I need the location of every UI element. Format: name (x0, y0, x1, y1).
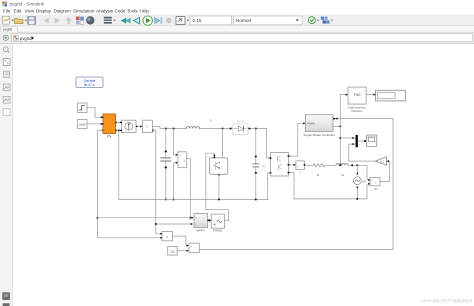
address input (12, 34, 473, 42)
arrow into PWM1 (209, 219, 211, 221)
capacitor C branch (253, 129, 259, 200)
wire V-measure minus down to rail (174, 163, 177, 200)
toolbar: model settings stack (104, 17, 116, 24)
svg-text:pvgrid - Simulink: pvgrid - Simulink (10, 2, 45, 7)
svg-text:pvgrid: pvgrid (20, 36, 32, 41)
svg-text:+: + (146, 125, 148, 129)
svg-text:V: V (195, 216, 197, 220)
wire bridge out to current measurement 2 (290, 164, 295, 166)
product block (162, 232, 173, 241)
svg-text:-: - (191, 249, 192, 253)
wire R to L1 (326, 164, 336, 166)
junction PV- down (118, 129, 120, 131)
PWM1 block (211, 214, 224, 228)
svg-text:pvgrid: pvgrid (3, 28, 12, 32)
current measurement block 2 (296, 161, 306, 170)
svg-text:PWM: PWM (307, 122, 315, 126)
svg-text:Single Phase Controller: Single Phase Controller (303, 133, 335, 137)
MPPT block (194, 214, 209, 228)
toolbar: stop (disabled) (166, 18, 172, 24)
current measurement block (142, 120, 154, 132)
junction load line (351, 164, 353, 166)
return wire bottom right (294, 185, 369, 199)
arrows into product (160, 233, 162, 235)
toolbar: step back (134, 17, 140, 24)
junction mux in1 (339, 137, 341, 139)
wire IGBT emitter to rail (218, 174, 220, 199)
wire gain out to mux in2 (349, 144, 376, 161)
svg-text:File: File (3, 8, 11, 13)
wire mux to scope (358, 140, 364, 142)
svg-text:Pv: Pv (107, 134, 111, 138)
junction bus / V-measure (173, 128, 175, 130)
wire PWM1 out gate loop to IGBT (206, 153, 229, 221)
toolbar: up arrow (disabled) (66, 17, 72, 24)
svg-text:110: 110 (170, 249, 175, 253)
svg-text:Edit: Edit (14, 8, 23, 13)
arrows into V1 ports (368, 179, 370, 181)
svg-text:0.1: 0.1 (380, 159, 384, 163)
wire bridge in2 to rail end (268, 173, 271, 200)
svg-text:THD: THD (354, 93, 362, 97)
svg-text:Analysis: Analysis (96, 8, 114, 13)
wire V-measure output down (187, 159, 191, 218)
wire bus down to IGBT (222, 129, 224, 158)
svg-text:Help: Help (140, 8, 150, 13)
svg-text:CSDN @电力电子与新能源技术: CSDN @电力电子与新能源技术 (421, 298, 472, 303)
title bar icon (2, 2, 7, 7)
wire product to sum (173, 236, 188, 246)
sidebar: image icon 1 (3, 84, 10, 91)
sidebar: image icon 2 (3, 96, 10, 103)
svg-text:L1: L1 (341, 173, 345, 177)
svg-text:0.15: 0.15 (193, 18, 202, 23)
address model icon (13, 35, 18, 40)
svg-text:Normal: Normal (236, 18, 251, 23)
toolbar: update diagram icon (308, 17, 319, 24)
controlled current source block (120, 120, 138, 132)
wire PV m-port down to product (98, 130, 161, 238)
diode ports (230, 128, 232, 130)
junction bus / C (255, 128, 257, 130)
wire PV-m to MPPT in1 (98, 217, 192, 219)
toolbar band (0, 15, 474, 26)
junction MPPT out (209, 219, 211, 221)
wire source to current measurement (138, 125, 143, 127)
toolbar: run button (143, 16, 152, 25)
toolbar: back arrow (disabled) (43, 18, 49, 24)
left sidebar (0, 44, 13, 306)
toolbar: build icon (321, 17, 333, 24)
svg-text:1000: 1000 (79, 123, 86, 127)
svg-text:Tools: Tools (127, 8, 138, 13)
AC source (353, 165, 361, 199)
universal bridge block (269, 153, 289, 177)
wire controller p2 to measurement column (333, 125, 340, 127)
active tab pvgrid (1, 27, 17, 32)
toolbar: step forward (155, 17, 163, 23)
svg-text:Simulation: Simulation (73, 8, 95, 13)
address arrow (32, 36, 34, 40)
svg-text:Distortion: Distortion (351, 109, 363, 113)
wire bridge g up to controller (290, 123, 305, 156)
resistor R (313, 164, 325, 167)
svg-text:v: v (184, 158, 186, 162)
svg-text:5e-07 s.: 5e-07 s. (84, 83, 96, 87)
wire 110 to sum (177, 250, 188, 252)
wire PV- to current source in2 (117, 129, 121, 131)
wire step to PV in1 (87, 107, 101, 117)
breadcrumb bar (0, 33, 474, 44)
tab bar (0, 26, 474, 32)
main DC bus wire (152, 126, 186, 128)
capacitor C1 branch (161, 129, 171, 200)
PV subsystem block (102, 114, 117, 134)
THD block (348, 87, 366, 104)
voltage measurement V1 (370, 177, 380, 185)
wire i to MPPT in2 arrow (191, 223, 193, 225)
arrow into PV port1 (101, 116, 103, 118)
sidebar: blank box (3, 109, 10, 116)
sidebar: doc icon (4, 71, 10, 77)
toolbar: mode dropdown Normal (234, 16, 303, 25)
toolbar: open folder (15, 19, 28, 24)
junction C1 / rail (165, 199, 167, 201)
junction bus / IGBT collector (222, 128, 224, 130)
wire bus down to V-measure plus (174, 129, 177, 155)
svg-text:PWM1: PWM1 (213, 228, 222, 232)
svg-text:+: + (179, 154, 181, 158)
wire THD to display (366, 94, 374, 96)
wire PV- down to rail (118, 130, 120, 199)
junction bus / C1 (165, 128, 167, 130)
scope block (366, 135, 376, 147)
wire 1000 to PV in2 (87, 123, 101, 125)
measurement wire i (imeas out down to MPPT in2 and product in1) (152, 130, 190, 224)
wire bridge out2 down to return (290, 173, 294, 199)
step source block (78, 103, 88, 113)
svg-text:MPPT: MPPT (197, 228, 206, 232)
menu bar (3, 8, 149, 13)
arrow into PV port2 (101, 123, 103, 125)
voltage measurement block 1 (178, 152, 187, 168)
powergui block (Discrete 5e-07 s.) (76, 77, 103, 88)
toolbar: fast restart teal icon (121, 18, 131, 24)
svg-text:+: + (190, 245, 192, 249)
wire V1 out up to gain (380, 161, 390, 182)
sidebar: fit-view icon (3, 59, 10, 66)
wire L1 to V1 plus (348, 165, 369, 179)
IGBT chopper block (210, 157, 228, 177)
bottom rail wire (119, 199, 268, 201)
svg-text:V1: V1 (374, 187, 378, 191)
single phase controller block (306, 115, 336, 132)
constant block 1000 (78, 120, 88, 129)
svg-text:Diagram: Diagram (54, 8, 72, 13)
sidebar bottom: partial icon (3, 303, 10, 306)
boost inductor L (186, 127, 200, 129)
inductor L1 (336, 164, 348, 166)
junction PV m / MPPT branch (97, 217, 99, 219)
wire to mux in1 (340, 137, 353, 139)
svg-text:View: View (25, 8, 36, 13)
toolbar: stop time field (190, 16, 232, 25)
junction AC top (356, 164, 358, 166)
sidebar: magnifier (4, 47, 10, 53)
toolbar: forward arrow (disabled) (55, 18, 61, 24)
arrow into THD (346, 94, 348, 96)
toolbar: sim mode box icon (176, 17, 189, 25)
sidebar bottom: browser toggle icon (3, 293, 10, 300)
wire PV+ to current source (117, 121, 121, 123)
svg-text:Display: Display (36, 8, 52, 13)
sum block (189, 243, 199, 253)
svg-text:Code: Code (115, 8, 126, 13)
constant block 110 (168, 246, 178, 255)
mux block (356, 135, 358, 147)
toolbar: library browser grid (76, 17, 84, 25)
toolbar: configuration sphere (87, 17, 95, 25)
wire controller p1 big loop to sum output (200, 119, 393, 250)
wire imeas2 to R (305, 164, 313, 166)
measurement column wire (340, 95, 346, 166)
svg-text:Total Harmonic: Total Harmonic (348, 105, 367, 109)
toolbar: new icon (3, 16, 14, 24)
svg-text:+: + (297, 164, 299, 168)
toolbar: save floppy (28, 17, 36, 25)
gain block 0.1 (375, 157, 386, 165)
arrow into current measurement (140, 125, 142, 127)
svg-text:Diode: Diode (237, 119, 245, 123)
diode block (233, 124, 248, 135)
display block (376, 90, 406, 101)
browse round button (3, 35, 8, 40)
